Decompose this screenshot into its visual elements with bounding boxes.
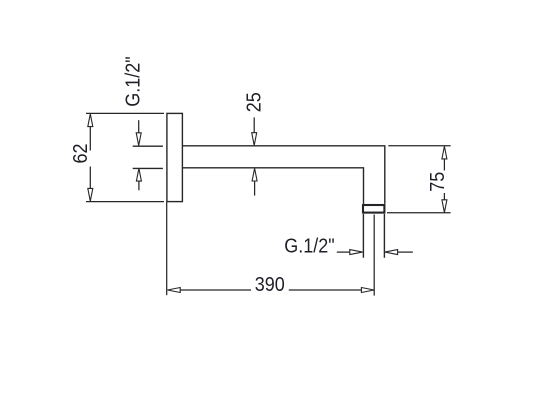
svg-text:G.1/2": G.1/2" (123, 56, 145, 106)
svg-text:75: 75 (427, 172, 449, 192)
svg-text:62: 62 (70, 143, 92, 163)
svg-text:390: 390 (255, 274, 285, 296)
svg-text:G.1/2": G.1/2" (284, 235, 334, 257)
svg-text:25: 25 (244, 92, 266, 112)
